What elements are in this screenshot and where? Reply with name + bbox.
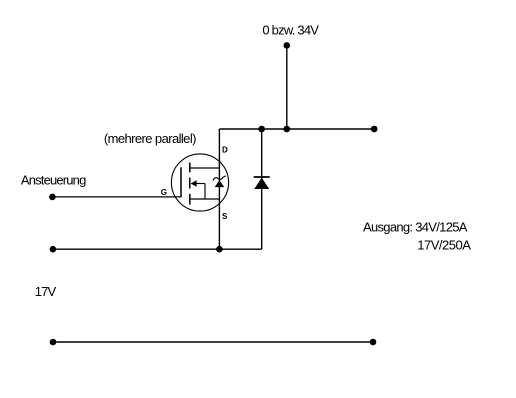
node: source return terminal dot [50,246,57,253]
svg-text:0 bzw. 34V: 0 bzw. 34V [262,23,319,38]
svg-text:17V: 17V [35,284,57,299]
wire: bottom source rail [53,248,262,250]
wire: gate lead [52,196,181,198]
junction: source on bottom rail [216,246,223,253]
wire: diode branch vertical [261,129,263,249]
node: top rail right end dot [371,126,378,133]
junction: diode branch on top rail [258,126,265,133]
node: 17V rail right dot [370,339,377,346]
svg-text:Ausgang: 34V/125A: Ausgang: 34V/125A [363,220,468,235]
node: supply terminal dot [284,42,291,49]
node: 17V rail left dot [50,339,57,346]
svg-text:(mehrere parallel): (mehrere parallel) [104,131,196,146]
wire: 17V bottom rail [53,341,373,343]
junction: supply wire on top rail [284,126,291,133]
wire: supply terminal down to top rail [286,45,288,129]
svg-text:Ansteuerung: Ansteuerung [21,173,86,188]
node: gate input terminal dot [49,194,56,201]
svg-text:D: D [222,146,228,155]
wire: drain-source vertical through Q1 [218,129,220,249]
wire: top rail [219,128,374,130]
svg-text:G: G [161,188,167,197]
transistor Q1 (MOSFET, mehrere parallel) [171,154,228,211]
svg-text:17V/250A: 17V/250A [417,237,471,252]
svg-text:S: S [222,212,228,221]
diode D1 (freewheeling) [254,177,270,189]
